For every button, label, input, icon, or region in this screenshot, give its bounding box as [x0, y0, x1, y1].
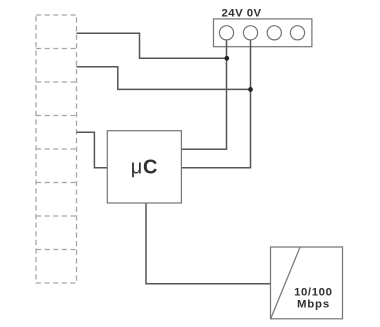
terminal block rectangle: [214, 19, 312, 47]
svg-text:24V 0V: 24V 0V: [222, 7, 262, 19]
wire: block pin1 to 24V junction: [77, 33, 228, 58]
microcontroller box U1: [107, 131, 181, 203]
wire: 24V terminal down to uC right upper: [181, 40, 226, 149]
junction 0V: [248, 87, 253, 92]
wire: 0V terminal down to uC right lower: [181, 40, 250, 168]
wire: block pin4 to uC left: [77, 132, 108, 168]
svg-text:10/100: 10/100: [294, 286, 332, 298]
wire: block pin2 to 0V junction: [77, 67, 251, 90]
diagonal speed stroke: [271, 247, 300, 318]
wire: uC bottom to ethernet box: [146, 203, 271, 284]
terminal circle 1 (24V): [219, 26, 233, 40]
ethernet box 10/100 Mbps: [271, 247, 343, 319]
connector block (dashed terminal strip): [36, 15, 77, 283]
svg-text:μC: μC: [131, 156, 158, 178]
terminal circle 2 (0V): [243, 26, 257, 40]
terminal circle 4: [290, 26, 304, 40]
terminal circle 3: [267, 26, 281, 40]
junction 24V: [224, 56, 229, 61]
svg-text:Mbps: Mbps: [297, 299, 330, 311]
